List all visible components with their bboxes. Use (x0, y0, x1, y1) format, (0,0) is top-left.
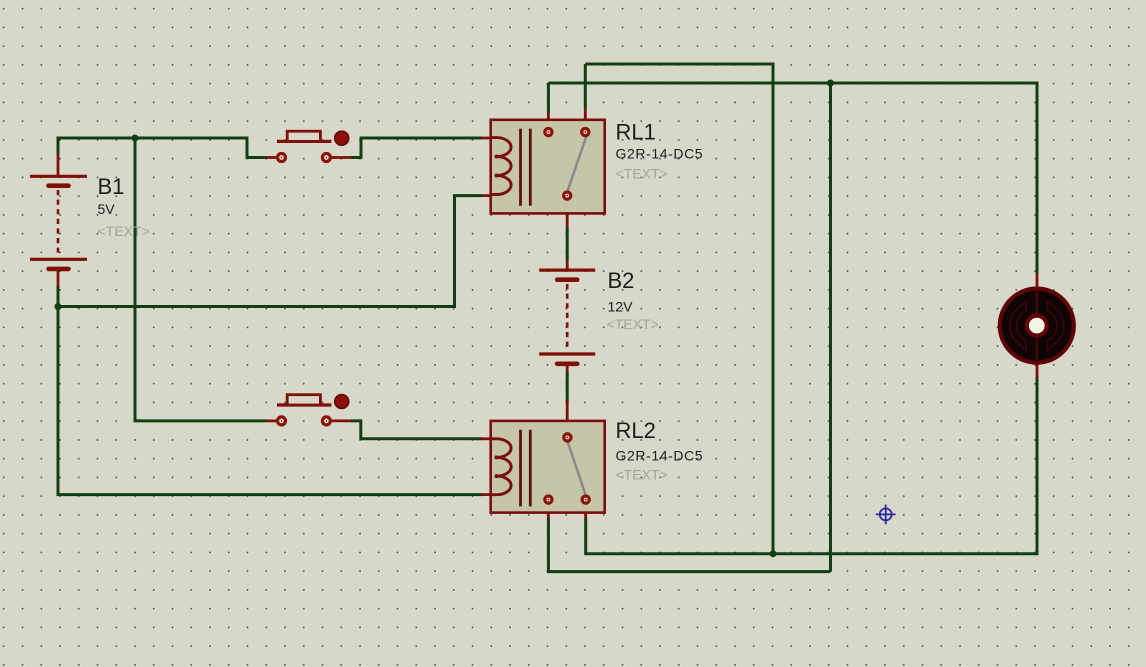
junction dot node motor- (770, 550, 777, 557)
svg-text:G2R-14-DC5: G2R-14-DC5 (616, 447, 704, 463)
wire RL2 pole to motor bottom (586, 377, 1037, 554)
wire pin stub motor plus (1036, 273, 1039, 290)
svg-text:<TEXT>: <TEXT> (616, 467, 668, 483)
junction dot node motor+ (827, 80, 834, 87)
wire pin stub RL2 contact left (547, 505, 550, 519)
wire pin stub RL1 coil bottom (481, 194, 491, 197)
svg-text:G2R-14-DC5: G2R-14-DC5 (616, 145, 704, 161)
svg-text:RL1: RL1 (616, 120, 656, 145)
motor brush left (1010, 301, 1026, 350)
junction dot node B1+ (132, 135, 139, 142)
wire pin stub B2 negative (566, 364, 569, 373)
svg-text:<TEXT>: <TEXT> (607, 316, 659, 332)
wire RL1 contact bottom to B2 (566, 227, 569, 261)
wire RL1 pole left up (547, 83, 550, 113)
push button SW2 (277, 395, 349, 425)
wire pin stub RL2 pole (584, 505, 587, 519)
pin RL2 pole (564, 434, 571, 441)
wire pin stub RL2 coil bottom (481, 493, 491, 496)
wire pin stub RL1 pole left (547, 112, 550, 128)
motor M1 (1000, 289, 1074, 363)
wire pin stub B1 negative (57, 270, 60, 287)
wire pin stub SW2 right (332, 419, 353, 422)
core RL2 (519, 430, 522, 507)
switch arm RL1 (567, 137, 586, 193)
origin marker (876, 505, 896, 525)
wire pin stub RL1 coil top (481, 137, 491, 140)
wire RL1 contact right up (584, 64, 587, 109)
svg-text:RL2: RL2 (616, 418, 656, 443)
wire B2 negative down (566, 372, 569, 402)
wire pin stub B2 positive (566, 260, 569, 270)
core RL1 (519, 129, 522, 206)
motor hub (1027, 316, 1047, 336)
svg-text:B1: B1 (98, 174, 125, 199)
pin RL1 pole (564, 192, 571, 199)
motor brush right (1048, 301, 1064, 350)
pin RL2 NC (545, 496, 552, 503)
wire pin stub RL1 contact bottom (566, 201, 569, 228)
wire pin stub RL2 pole top (566, 401, 569, 433)
svg-text:<TEXT>: <TEXT> (616, 166, 668, 182)
wire top rail to motor (548, 83, 1037, 274)
pin RL2 NO (582, 496, 589, 503)
wire pin stub SW1 left (266, 156, 277, 159)
wire pin stub SW1 right (332, 156, 353, 159)
motor shaft line (1036, 290, 1038, 361)
switch arm RL2 (567, 441, 586, 496)
relay RL2 (491, 421, 605, 513)
pin RL1 NO (582, 129, 589, 136)
wire junction to button SW2 (135, 139, 267, 421)
push button SW1 (277, 131, 349, 161)
wire pin stub motor minus (1036, 362, 1039, 378)
pin RL1 NC (545, 129, 552, 136)
svg-text:B2: B2 (608, 268, 635, 293)
coil RL2 (491, 439, 511, 495)
wire RL1 coil bottom to B1 negative rail (58, 196, 482, 307)
relay RL1 (491, 120, 605, 214)
wire pin stub RL1 contact right (584, 108, 587, 128)
wire SW1 to RL1 coil top (351, 138, 482, 158)
wire pin stub SW2 left (266, 419, 277, 422)
battery B2 (539, 270, 595, 364)
wire pin stub B1 positive (57, 154, 60, 176)
wire upper loop to right drop (585, 64, 773, 554)
wire B1+ top rail to button SW1 (58, 138, 267, 158)
wire bottom rail to RL2 coil bottom (58, 307, 482, 495)
wire pin stub RL2 coil top (481, 437, 491, 440)
junction dot node B1- (55, 303, 62, 310)
wire RL2 contact left run (548, 518, 830, 572)
wire junction drop to RL2 NC (829, 83, 832, 572)
svg-text:<TEXT>: <TEXT> (98, 223, 150, 239)
coil RL1 (491, 138, 511, 195)
svg-text:12V: 12V (608, 299, 634, 315)
battery B1 (30, 176, 87, 269)
wire B1 negative to rail (57, 286, 60, 307)
wire SW2 to RL2 coil top (351, 421, 482, 439)
svg-text:5V: 5V (98, 201, 116, 217)
